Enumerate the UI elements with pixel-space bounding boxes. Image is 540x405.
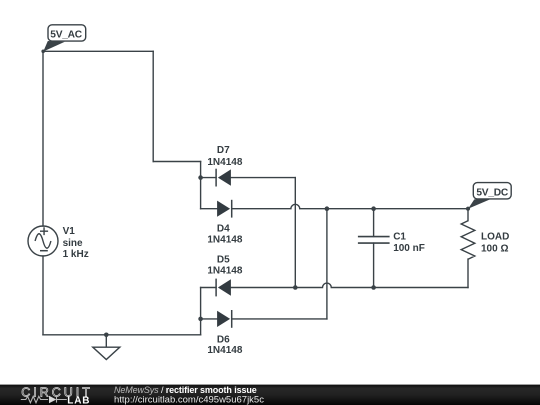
svg-text:1 kHz: 1 kHz xyxy=(63,249,89,260)
svg-text:100 nF: 100 nF xyxy=(393,243,425,254)
wire V1 bottom lead xyxy=(42,256,44,335)
wire vertical drop x=152.8 xyxy=(152,51,154,161)
wire horizontal y=161.5 xyxy=(153,161,200,163)
diode D6 xyxy=(217,310,232,328)
logo squiggle resistor-diode xyxy=(21,396,67,402)
wire D6 row left xyxy=(201,318,218,320)
node junction B dot xyxy=(198,317,203,322)
node flag 5V_AC xyxy=(43,25,85,52)
svg-text:1N4148: 1N4148 xyxy=(207,157,242,168)
node D6-D4 row dot xyxy=(325,206,330,211)
capacitor C1 xyxy=(358,237,390,244)
wire D7 anode-side left xyxy=(201,177,217,179)
svg-text:5V_DC: 5V_DC xyxy=(476,188,508,199)
svg-text:1N4148: 1N4148 xyxy=(207,266,242,277)
node junction A dot xyxy=(198,175,203,180)
wire LOAD top lead xyxy=(467,209,469,221)
voltage source V1 xyxy=(28,226,58,256)
svg-text:sine: sine xyxy=(63,238,83,249)
node flag 5V_DC xyxy=(468,183,511,209)
wire LOAD bottom lead xyxy=(467,259,469,287)
wire D4 row left xyxy=(201,208,218,210)
svg-text:100 Ω: 100 Ω xyxy=(481,244,508,255)
node ground junction dot xyxy=(104,333,109,338)
svg-text:D7: D7 xyxy=(217,145,230,156)
wire vertical into junction A xyxy=(200,162,202,209)
svg-text:LOAD: LOAD xyxy=(481,232,509,243)
node 5V_AC corner dot xyxy=(41,50,45,54)
wire top net from V1 plus to corner xyxy=(43,50,153,52)
wire C1 top lead xyxy=(373,209,375,237)
node C1 bottom dot xyxy=(371,285,376,290)
svg-text:1N4148: 1N4148 xyxy=(207,235,242,246)
svg-text:LAB: LAB xyxy=(67,396,90,405)
footer bar xyxy=(0,385,540,405)
wire junction B vertical xyxy=(200,288,202,335)
wire D6 row right xyxy=(232,318,327,320)
diode D5 xyxy=(216,279,231,297)
wire vertical D6 to D4 row xyxy=(326,209,328,319)
node C1 top dot xyxy=(371,206,376,211)
svg-text:C1: C1 xyxy=(393,232,406,243)
svg-text:D4: D4 xyxy=(217,223,230,234)
diode D4 xyxy=(217,200,232,218)
wire D5 row left xyxy=(201,287,217,289)
svg-text:5V_AC: 5V_AC xyxy=(50,30,82,41)
svg-text:D5: D5 xyxy=(217,255,230,266)
ground xyxy=(93,335,120,360)
wire D7 right to vertical xyxy=(231,177,295,179)
svg-text:NeMewSys / rectifier smooth is: NeMewSys / rectifier smooth issue xyxy=(114,385,257,395)
node 5V_DC corner dot xyxy=(466,207,470,211)
svg-text:V1: V1 xyxy=(63,226,76,237)
svg-text:http://circuitlab.com/c495w5u6: http://circuitlab.com/c495w5u67jk5c xyxy=(114,395,264,405)
wire bottom net to junction B xyxy=(43,334,201,336)
svg-text:1N4148: 1N4148 xyxy=(207,345,242,356)
diode D7 xyxy=(216,169,231,187)
wire D5 row right with hop xyxy=(231,283,468,287)
resistor LOAD xyxy=(461,221,475,260)
wire C1 bottom lead xyxy=(373,243,375,287)
wire vertical D7 to D5 row xyxy=(294,178,296,288)
svg-text:D6: D6 xyxy=(217,335,230,346)
wire V1 top lead xyxy=(42,51,44,226)
node D7-D5 row dot xyxy=(293,285,298,290)
wire D4 row right with hop xyxy=(232,204,468,208)
